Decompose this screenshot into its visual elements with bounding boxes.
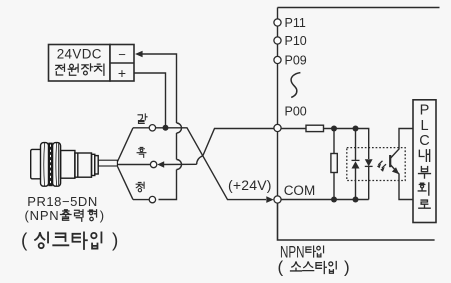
- svg-text:(: (: [21, 231, 28, 252]
- svg-text:C: C: [419, 133, 429, 149]
- svg-text:PR18−5DN: PR18−5DN: [27, 194, 98, 209]
- svg-text:+: +: [118, 65, 126, 81]
- svg-text:L: L: [420, 118, 428, 134]
- svg-text:−: −: [118, 47, 126, 62]
- svg-text:(: (: [278, 258, 284, 277]
- svg-text:24VDC: 24VDC: [57, 47, 102, 62]
- svg-text:P10: P10: [285, 34, 307, 48]
- svg-text:): ): [100, 208, 104, 223]
- svg-text:P11: P11: [285, 16, 306, 30]
- svg-text:COM: COM: [284, 183, 316, 198]
- svg-text:NPN: NPN: [280, 244, 305, 262]
- svg-text:(+24V): (+24V): [228, 177, 272, 193]
- svg-text:): ): [112, 231, 118, 252]
- svg-text:): ): [344, 258, 350, 277]
- svg-text:P: P: [420, 103, 430, 119]
- svg-text:P09: P09: [285, 54, 307, 68]
- svg-text:P00: P00: [285, 105, 307, 119]
- svg-text:(NPN: (NPN: [25, 208, 60, 223]
